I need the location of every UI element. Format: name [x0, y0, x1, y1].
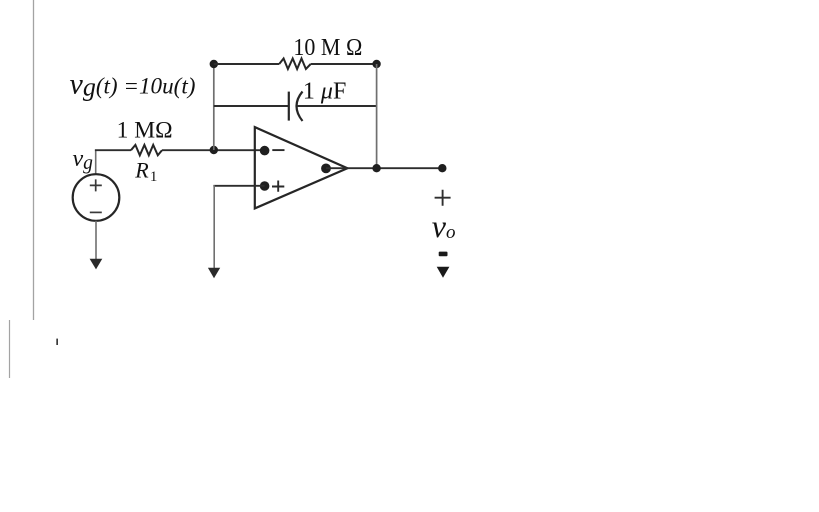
svg-text:R1: R1: [134, 157, 157, 185]
node: top left: [210, 60, 218, 68]
wire: output: [326, 167, 442, 169]
wire: top feedback right segment: [311, 63, 377, 65]
output minus sign (bold dash): [439, 252, 448, 257]
wire: capacitor right lead: [297, 105, 377, 107]
svg-text:vg: vg: [73, 146, 94, 174]
wire: vertical feedback left: [213, 64, 215, 150]
voltage source vg circle: [73, 174, 120, 221]
svg-text:vg(t) =10u(t): vg(t) =10u(t): [70, 68, 196, 102]
minus sign in source: [90, 211, 102, 213]
capacitor C curved plate: [297, 92, 303, 122]
plus sign in source: [90, 179, 102, 191]
svg-text:vo: vo: [432, 208, 456, 244]
op-amp U1 triangle: [255, 127, 348, 208]
op-amp noninverting input dot: [260, 181, 270, 191]
wire: noninverting input lead: [213, 185, 264, 187]
op-amp inverting input dot: [260, 146, 270, 156]
svg-text:1 MΩ: 1 MΩ: [117, 117, 173, 142]
svg-text:10 M Ω: 10 M Ω: [293, 35, 362, 61]
wire: R1 to inverting node and op-amp: [162, 149, 265, 151]
node A: inverting input junction: [210, 146, 218, 154]
wire: capacitor left lead: [214, 105, 288, 107]
wire: source top lead up and right to R1: [95, 150, 97, 175]
capacitor C left plate: [288, 92, 290, 121]
op-amp internal output dot: [321, 164, 331, 174]
resistor 10 MΩ zigzag: [279, 59, 311, 70]
node: output terminal: [438, 164, 446, 172]
wire: source bottom lead: [95, 221, 97, 260]
svg-text:1 μF: 1 μF: [303, 79, 346, 105]
page edge artifact line (top-left): [33, 0, 35, 320]
page edge artifact line (lower-left): [9, 320, 11, 378]
ground arrow (source): [90, 259, 103, 270]
ground arrow (noninverting): [208, 268, 220, 279]
resistor R1 zigzag: [131, 145, 162, 155]
cursor tick artifact: [56, 339, 58, 345]
wire: source to R1: [95, 149, 131, 151]
wire: top feedback left segment: [214, 63, 279, 65]
wire: vertical feedback right: [376, 64, 378, 168]
output reference arrow: [437, 267, 450, 278]
node: top right: [372, 60, 380, 68]
op-amp minus sign: [272, 149, 284, 151]
output plus sign: [435, 190, 451, 206]
op-amp plus sign: [272, 181, 284, 192]
wire: noninverting down lead: [213, 185, 215, 269]
node: feedback/output junction: [372, 164, 380, 172]
